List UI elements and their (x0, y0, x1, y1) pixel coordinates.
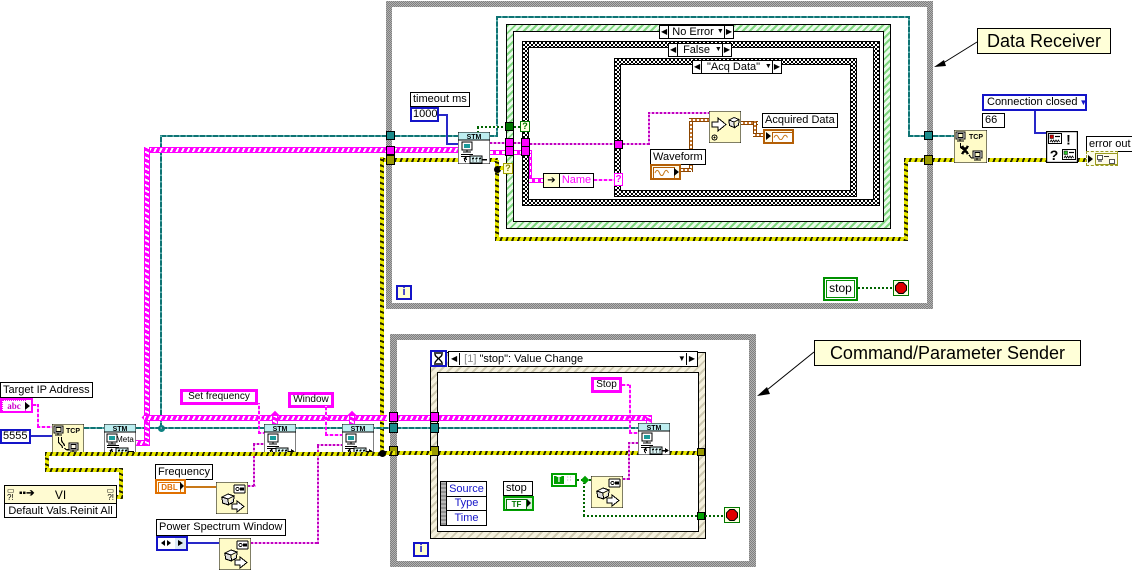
tunnel: error on top loop right border (924, 155, 933, 165)
constant: 1000 (410, 107, 439, 122)
svg-text:Meta: Meta (116, 435, 134, 444)
wire: waveform from constant up to Variant To Data (689, 118, 693, 172)
indicator terminal: Name (543, 173, 594, 188)
while loop U1: Data Receiver frame (386, 1, 933, 7)
wire: orange DBL to To Variant 1 (186, 486, 216, 488)
event data node: Source/Type/Time (440, 481, 487, 526)
wire: string Window down to STM write 2 (325, 406, 327, 435)
node: error junction dot below STM Read (494, 166, 501, 173)
label: timeout ms (410, 92, 470, 107)
node: meta wire junction bump above STM write 1 (271, 411, 279, 419)
tunnel: meta cluster on top loop left border (386, 146, 395, 155)
wire: timed-out? boolean dotted from STM Read top (477, 126, 479, 133)
wire: blue from ring to error handler (1034, 111, 1036, 134)
svg-text:TCP: TCP (969, 134, 983, 141)
tunnel: meta cluster on event border (430, 412, 439, 422)
op: To Variant 3 (icon) (591, 476, 623, 508)
case structure: No Error (green striped) (506, 24, 891, 229)
svg-text:?: ? (1050, 147, 1059, 163)
wire: meta cluster hatched pink vertical riser (144, 147, 150, 444)
case selector label: False (668, 43, 732, 57)
wire: error riser to top loop tunnel (380, 157, 384, 453)
constant: Waveform (orange) (650, 164, 681, 180)
event structure timeout terminal (hourglass) (430, 350, 447, 367)
case selector terminal: Acq Data (?) (614, 173, 623, 186)
tunnel: variant on No Error border (505, 138, 514, 147)
op: To Variant 1 (icon) (216, 482, 248, 514)
node: teal junction dot (158, 425, 165, 432)
op: Error Cluster From Error Code (icon) (1046, 131, 1078, 163)
terminal: stop boolean TF (503, 496, 534, 511)
op: STM Write Message 2 (icon) (342, 424, 374, 456)
wire: boolean dotted down and right to loop stop terminal (583, 483, 585, 516)
wire: string from abc to TCP Open (33, 404, 39, 406)
tunnel: timed-out boolean (dark green) (505, 122, 514, 131)
wire: variant To Variant 3 up to STM write 3 (623, 478, 630, 480)
wire: teal vertical riser from TCP Open chain (160, 135, 162, 428)
wire: string Stop down to STM write 3 (622, 384, 631, 386)
wire: string down to Name indicator (528, 150, 532, 155)
tunnel: teal on sender loop border (389, 423, 398, 433)
case selector terminal: No Error (?) (503, 163, 513, 174)
control: Power Spectrum Window ring (156, 536, 188, 551)
node: error junction dot at loop split (379, 450, 386, 457)
label: stop (503, 481, 533, 496)
wire: variant msg-data from STM Read to case tunnels (490, 142, 506, 144)
wire: error handler to error out (1078, 158, 1088, 162)
tunnel: boolean on event right border (697, 512, 705, 520)
arrow: annotation Command/Parameter Sender (755, 350, 817, 400)
wire: boolean dotted to loop stop terminal (858, 287, 893, 289)
node: meta cluster junction (142, 413, 152, 423)
wire: blue 5555 to TCP Open (31, 435, 52, 437)
wire: error from tunnel to TCP Close (933, 158, 956, 162)
label: Frequency (155, 464, 213, 480)
wire: meta cluster long run to the right (144, 415, 387, 421)
label: Set frequency (180, 389, 258, 405)
op: STM Set Meta Data (icon) (104, 424, 136, 456)
wire: teal TCP reroute frame around No Error case (496, 16, 910, 18)
control: Target IP Address string (abc) (0, 398, 33, 413)
label: Window (288, 392, 334, 408)
wire: string msg-name from STM Read to tunnels (490, 150, 506, 155)
event structure frame (430, 352, 706, 539)
tunnel: error on event border (430, 446, 439, 456)
tunnel: error on event right border (697, 448, 705, 456)
wire: meta cluster hatched pink horizontal into top loop (144, 147, 387, 153)
constant: 5555 (0, 429, 31, 444)
wire: error from dot to selector ? (499, 166, 504, 170)
tunnel: variant on False border (521, 138, 530, 147)
op: To Variant 2 (icon) (219, 538, 251, 570)
terminal: loop stop condition (red octagon) (893, 280, 909, 296)
tunnel: string on No Error border (505, 146, 514, 156)
tunnel: error on top loop left border (386, 155, 395, 165)
terminal: iteration i (sender loop) (413, 542, 429, 557)
tunnel: variant on Acq Data border (614, 140, 623, 149)
wire: variant To Variant 2 up to STM write 2 (251, 542, 319, 544)
tunnel: meta cluster on sender loop border (389, 412, 398, 422)
wire: waveform out of Variant To Data to Acquired Data (741, 121, 758, 125)
while loop U2: Command/Parameter Sender frame (390, 334, 756, 340)
indicator: Acquired Data (waveform) (763, 129, 794, 144)
terminal: loop stop condition sender (red octagon) (724, 507, 740, 523)
wire: variant inside Acq Data case to Variant-To-Data (623, 143, 650, 145)
wire: teal TCP Open to STM Meta (84, 427, 104, 429)
wire: error from tunnel to STM Read (395, 158, 458, 162)
tunnel: teal on top loop right border (924, 131, 933, 140)
wire: error TCP Close to error handler (988, 158, 1047, 162)
wire: error out of TCP Open wrap-around to VI invoke node (45, 452, 49, 471)
svg-text:STM: STM (467, 134, 482, 141)
label: Data Receiver (977, 28, 1111, 54)
op: TCP Open Connection (icon) (52, 424, 84, 456)
label: Acquired Data (762, 113, 838, 128)
op: STM Read Message (icon) (458, 132, 490, 164)
case selector label: "Acq Data" (692, 60, 782, 74)
svg-text:STM: STM (273, 426, 288, 433)
wire: error main run TCP Open to STM chain (45, 452, 386, 456)
op: STM Write Message 1 (icon) (264, 424, 296, 456)
invoke node: VI / Default Vals.Reinit All (4, 485, 117, 518)
case selector terminal: False (?) (520, 121, 530, 132)
tunnel: teal on top loop left border (386, 131, 395, 140)
ring constant: Connection closed (982, 94, 1087, 111)
wire: teal TCP from tunnel to STM Read (top loop left) (161, 135, 387, 137)
wire: meta cluster out of STM Meta (136, 440, 150, 446)
label: error out (1086, 136, 1132, 152)
svg-text:STM: STM (351, 426, 366, 433)
tunnel: teal on event border (430, 423, 439, 433)
wire: boolean dotted T to junction and To Variant 3 (577, 479, 591, 481)
label: Target IP Address (0, 382, 93, 398)
wire: string from Name indicator to Acq Data selector (594, 179, 615, 181)
op: STM Write Message 3 (icon) (638, 423, 670, 455)
event selector label: [1] "stop": Value Change (448, 351, 698, 367)
wire: meta cluster drop into STM write 3 (646, 417, 652, 425)
svg-text:STM: STM (113, 426, 128, 433)
case selector label: No Error (659, 25, 734, 39)
node: meta wire junction bump above STM write 2 (348, 411, 356, 419)
control: stop boolean (green) (823, 277, 858, 301)
label: Waveform (650, 149, 706, 165)
label: Power Spectrum Window (156, 519, 286, 536)
node: boolean junction diamond (581, 476, 589, 484)
svg-text:!: ! (1066, 132, 1071, 148)
op: Variant To Data (icon) (709, 111, 741, 143)
wire: string Set frequency down to STM write 1 (258, 403, 260, 434)
wire: variant To Variant 1 up to STM write 1 (248, 485, 256, 487)
op: TCP Close Connection (icon) (954, 130, 987, 163)
case structure: False (checkered) (522, 41, 880, 206)
wire: blue ring to To Variant 2 (188, 542, 219, 544)
constant: 66 (982, 113, 1005, 128)
svg-text:TCP: TCP (66, 428, 80, 435)
svg-text:STM: STM (647, 425, 662, 432)
tunnel: error on sender loop border (389, 446, 398, 456)
arrow: annotation Data Receiver (930, 40, 980, 72)
control: Frequency DBL (155, 479, 186, 494)
case structure: "Acq Data" (checkered) (614, 58, 857, 197)
constant: True boolean T (551, 473, 577, 487)
wire: teal from tunnel to TCP Close (933, 135, 956, 137)
terminal: iteration i (top loop) (396, 285, 412, 300)
constant: Stop string (591, 377, 622, 393)
wire: error inside sender loop to STM write 3 (385, 451, 395, 455)
wire: error inside No Error case bottom run (490, 158, 498, 162)
wire: teal STM Meta onward to STM write chain (136, 427, 638, 429)
tunnel: string on False border (521, 146, 530, 156)
indicator: error out cluster (1086, 151, 1118, 166)
wire: timeout blue from 1000 constant to STM Read (439, 114, 448, 116)
label: Command/Parameter Sender (814, 340, 1081, 366)
